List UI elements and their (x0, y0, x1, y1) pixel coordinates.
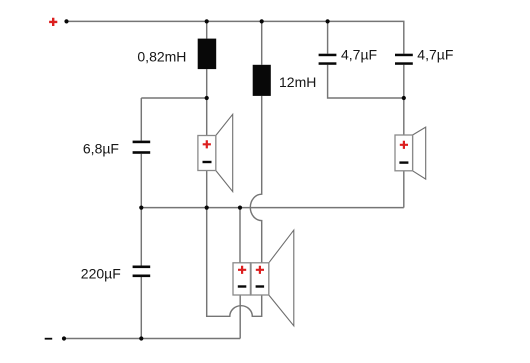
node C1/C2/tweeter2 (402, 96, 406, 100)
wire tweeter1 minus lead to bus (206, 171, 208, 208)
output terminal dot (-) (62, 336, 66, 340)
woofer coil1 plus (238, 266, 246, 274)
wire L1 branch upper (206, 21, 208, 38)
node dots (62, 19, 406, 340)
svg-text:12mH: 12mH (279, 74, 316, 90)
woofer coil1 minus (238, 285, 247, 287)
svg-text:220µF: 220µF (81, 266, 121, 282)
capacitor C2 4,7uF (right) (395, 54, 413, 65)
+ terminal marker (red) (49, 18, 57, 26)
wire top rail (67, 21, 404, 53)
tweeter1 (left speaker) (198, 114, 233, 191)
tweeter2 (right speaker) (395, 127, 426, 179)
woofer coil2 minus (256, 285, 265, 287)
wire bus (mid horizontal) (141, 207, 404, 209)
wire tweeter2 plus lead (403, 98, 405, 135)
wire C2 (4,7uF) branch lower (403, 65, 405, 98)
node bus/tweeter1 (205, 206, 209, 210)
wire C1 branch lower + link to right node (328, 65, 404, 98)
inductor L1 0,82mH (198, 39, 217, 70)
wire L1 branch lower (206, 69, 208, 98)
wire bottom rail (64, 338, 240, 340)
wire C4 branch lower (140, 277, 142, 339)
wire tweeter2 minus lead to bus (403, 171, 405, 208)
- terminal marker (45, 338, 53, 340)
wire junction to C3 (6,8uF) (141, 97, 206, 99)
wire tweeter1 plus lead (206, 98, 208, 136)
node top/L2 (260, 19, 264, 23)
wire C4 (220uF) branch upper (140, 208, 142, 266)
node bus/woofer coil1 (238, 206, 242, 210)
capacitor C4 220uF (133, 266, 151, 278)
svg-text:4,7µF: 4,7µF (417, 47, 453, 63)
wire woofer coil2 return path with hop (207, 208, 262, 317)
input terminal dot (+) (64, 19, 68, 23)
woofer coil1 box (233, 263, 250, 295)
wire L2 branch upper (261, 21, 263, 64)
node top/L1 (205, 19, 209, 23)
svg-text:0,82mH: 0,82mH (137, 49, 186, 65)
capacitor C3 6,8uF (133, 141, 151, 154)
wire C3 branch lower (140, 154, 142, 208)
svg-text:4,7µF: 4,7µF (341, 47, 377, 63)
node L1/C3/tweeter1 (205, 96, 209, 100)
node top/C1 (326, 19, 330, 23)
woofer coil2 box (251, 263, 269, 295)
wire C1 (4,7uF) branch upper (327, 21, 329, 53)
wire C3 branch upper (140, 98, 142, 141)
inductor L2 12mH (253, 65, 271, 96)
wire L2 branch lower with hop over bus (250, 96, 261, 263)
woofer (dual voice coil) (233, 230, 294, 326)
node bus/C3-C4 (139, 206, 143, 210)
node bottom/C4 (139, 336, 143, 340)
woofer coil2 plus (256, 266, 264, 274)
svg-text:6,8µF: 6,8µF (83, 141, 119, 157)
wire woofer coil1 minus lead to bottom rail (239, 295, 241, 339)
capacitor C1 4,7uF (left) (319, 54, 337, 65)
wire woofer coil1 plus lead (239, 208, 241, 263)
